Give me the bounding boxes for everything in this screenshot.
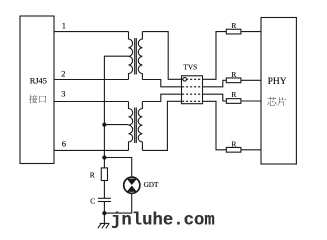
wire R1 to PHY (241, 31, 261, 33)
TVS internal dashed line2 (182, 86, 202, 88)
junction node ground (103, 212, 106, 215)
svg-text:R: R (231, 139, 236, 148)
svg-text:R: R (231, 90, 236, 99)
transformer T1 right winding (138, 32, 142, 80)
wire R to C (103, 181, 105, 199)
wire T1 secondary bottom to TVS line2 (142, 80, 181, 87)
transformer T1 left winding (129, 32, 133, 80)
TVS internal dashed line1 (182, 78, 202, 80)
capacitor C plate top (98, 197, 111, 199)
wire pin1 RJ45 to T1 (54, 31, 129, 33)
wire pin2 RJ45 to T1 (54, 79, 129, 81)
wire R2 to PHY (241, 79, 261, 81)
wire T2 secondary bottom to TVS line4 (142, 101, 181, 150)
svg-text:2: 2 (61, 68, 65, 78)
RJ45 connector box (20, 16, 54, 164)
GDT gas discharge tube (124, 177, 140, 193)
wire R3 to PHY (241, 100, 261, 102)
wire R4 to PHY (241, 149, 261, 151)
GDT bottom triangle (127, 186, 137, 192)
wire pin6 RJ45 to T2 (54, 149, 129, 151)
junction node T2 tap (103, 123, 106, 126)
resistor R bottom (vertical) (101, 168, 107, 181)
svg-text:6: 6 (62, 139, 66, 149)
T1 center tap wire (104, 56, 128, 124)
text RJ45 label jie 接 (29, 95, 38, 104)
resistor R4 (226, 147, 241, 152)
svg-text:TVS: TVS (183, 63, 197, 72)
ground symbol (100, 222, 110, 224)
resistor R2 (226, 78, 241, 83)
text RJ45 label kou 口 (39, 96, 46, 103)
svg-text:RJ45: RJ45 (30, 76, 47, 85)
PHY chip box (261, 18, 296, 165)
transformer T2 core (134, 108, 136, 144)
resistor R1 (226, 29, 241, 34)
svg-text:GDT: GDT (144, 181, 159, 189)
wire T2 secondary top to TVS line3 (142, 94, 181, 101)
text PHY label xin 芯 (267, 97, 276, 106)
wire TVS line2 to R2 (203, 80, 227, 87)
wire C to ground (103, 202, 105, 224)
T2 center tap wire (104, 124, 128, 126)
wire pin3 RJ45 to T2 (54, 101, 129, 103)
transformer T2 left winding (129, 102, 133, 151)
svg-text:R: R (90, 170, 95, 179)
TVS pin1 circle marker (183, 78, 187, 82)
wire TVS line1 to R1 (203, 32, 227, 80)
svg-text:R: R (231, 70, 236, 79)
capacitor C plate bottom (98, 201, 111, 203)
junction node GDT top (103, 156, 106, 159)
text PHY label pian 片 (277, 97, 286, 106)
wire T1 secondary top to TVS line1 (142, 32, 181, 80)
svg-text:PHY: PHY (268, 77, 287, 87)
svg-text:1: 1 (62, 21, 66, 31)
svg-text:C: C (90, 197, 95, 206)
TVS internal dashed line4 (182, 100, 202, 102)
svg-text:3: 3 (61, 89, 65, 99)
GDT bottom branch wire (104, 194, 131, 214)
wire TVS line3 to R3 (203, 94, 227, 101)
svg-text:R: R (231, 21, 236, 30)
resistor R3 (226, 99, 241, 104)
svg-text:jnluhe.com: jnluhe.com (111, 212, 215, 231)
GDT top branch wire (104, 158, 131, 177)
transformer T1 core (134, 38, 136, 75)
GDT top triangle (127, 179, 137, 185)
TVS internal dashed line3 (182, 93, 202, 95)
TVS box U1 (182, 76, 203, 104)
wire TVS line4 to R4 (203, 101, 227, 150)
transformer T2 right winding (138, 102, 142, 151)
main ground vertical wire (103, 125, 105, 168)
